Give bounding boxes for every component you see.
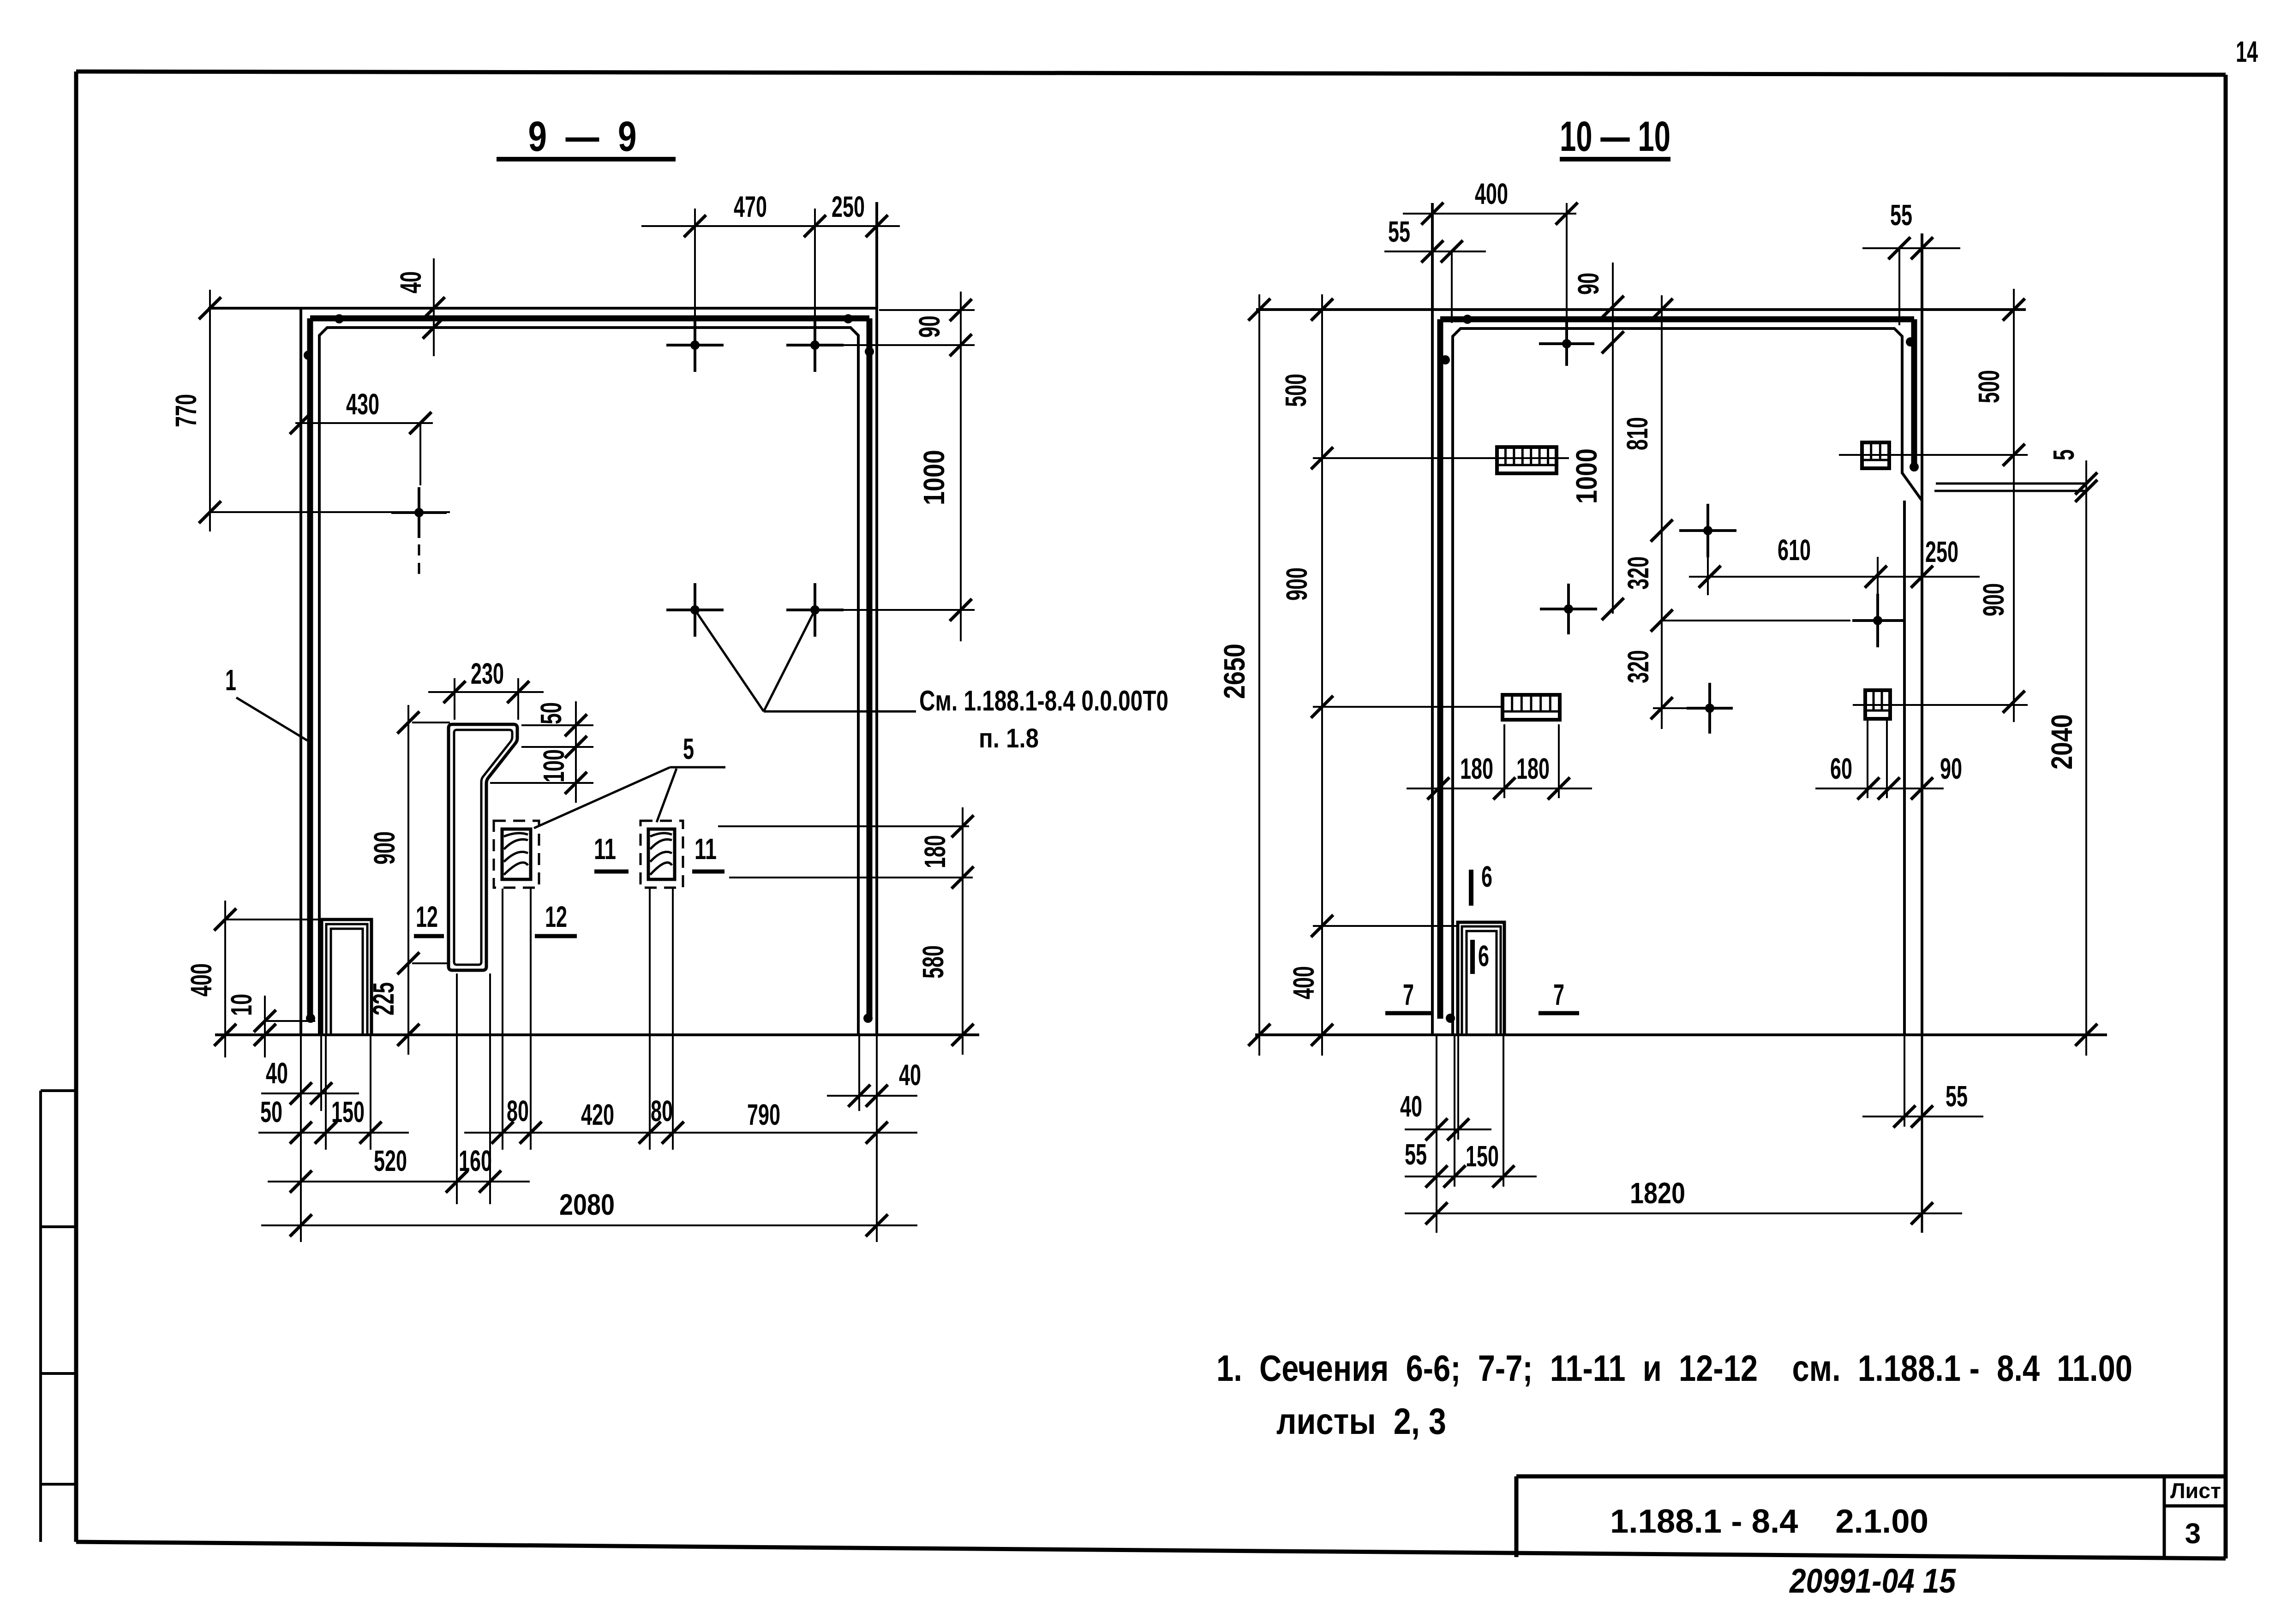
section title 9-9 xyxy=(497,113,676,160)
svg-text:2080: 2080 xyxy=(559,1188,615,1221)
dim 55 top-left 10-10 xyxy=(1384,215,1486,323)
dim 770 left 9-9 xyxy=(169,290,450,531)
dim 90 / 1000 centre 10-10 xyxy=(1570,263,1624,620)
svg-text:См. 1.188.1-8.4 0.0.00Т0: См. 1.188.1-8.4 0.0.00Т0 xyxy=(919,685,1168,717)
label 1 with leader xyxy=(225,663,307,740)
section title 10-10 xyxy=(1560,113,1670,160)
section marks 7-7 10-10 xyxy=(1385,978,1579,1013)
svg-text:5: 5 xyxy=(683,732,694,765)
panel 10-10 inner contour with notch xyxy=(1453,328,1922,1035)
dim 40 bottom 10-10 xyxy=(1400,1090,1491,1140)
dim 400 top 10-10 xyxy=(1403,177,1578,225)
title block sheet label xyxy=(2170,1479,2221,1550)
svg-text:520: 520 xyxy=(374,1144,407,1177)
dim 55 bottom-right 10-10 xyxy=(1862,1080,1983,1128)
left binding marks xyxy=(41,1091,76,1542)
svg-text:150: 150 xyxy=(1466,1140,1499,1173)
svg-text:12: 12 xyxy=(416,900,438,933)
svg-text:2650: 2650 xyxy=(1218,644,1251,699)
dim 610 / 250 10-10 xyxy=(1689,533,1980,588)
centerline crosses top row 9-9 xyxy=(666,209,975,372)
dim row 50 150 80 420 80 790 bottom 9-9 xyxy=(258,1094,917,1144)
svg-text:80: 80 xyxy=(651,1094,673,1128)
svg-text:150: 150 xyxy=(331,1095,365,1128)
svg-text:1: 1 xyxy=(225,663,236,697)
panel 9-9 inner contour xyxy=(319,328,858,1033)
ground line 9-9 xyxy=(215,1033,979,1036)
extension lines below 9-9 xyxy=(301,889,877,1242)
svg-text:40: 40 xyxy=(899,1058,921,1092)
label 5 with leaders to inserts xyxy=(534,732,725,828)
svg-text:55: 55 xyxy=(1946,1080,1968,1113)
dim 230 above channel 9-9 xyxy=(428,657,544,720)
svg-text:1.188.1 - 8.4 2.1.00: 1.188.1 - 8.4 2.1.00 xyxy=(1610,1503,1928,1540)
svg-text:80: 80 xyxy=(507,1094,529,1128)
svg-text:320: 320 xyxy=(1622,556,1655,590)
svg-text:180: 180 xyxy=(918,835,952,868)
svg-text:230: 230 xyxy=(471,657,504,690)
centerline crosses 10-10 xyxy=(1539,203,1903,734)
svg-text:400: 400 xyxy=(185,963,218,997)
anchor plate right row1 10-10 xyxy=(1862,442,1889,468)
svg-text:40: 40 xyxy=(394,271,427,293)
page number 14 xyxy=(2236,35,2258,68)
channel profile element 9-9 xyxy=(449,724,517,970)
svg-text:40: 40 xyxy=(1400,1090,1422,1123)
dim 90 / 1000 right 9-9 xyxy=(879,292,975,641)
dim 180 / 580 right 9-9 xyxy=(718,807,974,1055)
svg-text:6: 6 xyxy=(1478,939,1489,973)
svg-text:3: 3 xyxy=(2185,1518,2201,1550)
svg-text:1820: 1820 xyxy=(1630,1176,1685,1210)
svg-text:225: 225 xyxy=(367,982,400,1015)
dim 60 90 right 10-10 xyxy=(1815,721,1962,800)
svg-text:20991-04 15: 20991-04 15 xyxy=(1789,1562,1956,1600)
svg-text:900: 900 xyxy=(1280,567,1313,601)
svg-text:400: 400 xyxy=(1475,177,1508,210)
dim row 2080 bottom 9-9 xyxy=(261,1188,917,1236)
svg-text:55: 55 xyxy=(1405,1138,1427,1171)
svg-text:50: 50 xyxy=(260,1095,282,1128)
dim 180 180 left 10-10 xyxy=(1407,724,1592,800)
door frame element 10-10 xyxy=(1458,922,1504,1035)
dim 55 top-right 10-10 xyxy=(1862,198,1960,325)
svg-text:1000: 1000 xyxy=(917,450,951,505)
dim 1820 bottom 10-10 xyxy=(1405,1176,1962,1224)
section marks 11-11 xyxy=(594,832,724,872)
section marks 6 10-10 xyxy=(1471,860,1492,974)
dim 55 150 bottom 10-10 xyxy=(1405,1138,1537,1188)
svg-text:610: 610 xyxy=(1778,533,1811,567)
svg-text:900: 900 xyxy=(1977,583,2010,616)
dim 40 top slab 9-9 xyxy=(394,258,445,356)
svg-text:320: 320 xyxy=(1622,650,1655,683)
extension lines below 10-10 xyxy=(1437,1035,1922,1233)
svg-text:11: 11 xyxy=(694,832,717,866)
centerline crosses mid row 9-9 with leaders xyxy=(666,583,975,711)
svg-text:2040: 2040 xyxy=(2045,714,2078,770)
note text line 2 xyxy=(1276,1401,1446,1442)
centerline cross top-left 9-9 xyxy=(391,487,447,577)
panel 10-10 outer contour xyxy=(1256,203,2026,1035)
svg-text:90: 90 xyxy=(913,316,946,338)
svg-text:60: 60 xyxy=(1830,752,1852,785)
svg-text:10 — 10: 10 — 10 xyxy=(1560,113,1670,160)
dim 900 / 225 channel 9-9 xyxy=(367,705,450,1055)
title block frame xyxy=(1516,1476,2226,1558)
dim row 40 bottom 9-9 xyxy=(261,1057,921,1107)
svg-text:770: 770 xyxy=(169,394,203,427)
wood insert 11 left (hatched, dashed outline) xyxy=(494,821,539,888)
panel 9-9 outer contour xyxy=(208,202,877,1033)
svg-text:7: 7 xyxy=(1403,978,1414,1011)
svg-text:900: 900 xyxy=(368,831,401,865)
title block document number xyxy=(1610,1503,1928,1540)
svg-text:7: 7 xyxy=(1553,978,1564,1011)
svg-text:100: 100 xyxy=(537,749,570,782)
panel 9-9 reinforcement thick lines xyxy=(310,318,869,1019)
svg-text:5: 5 xyxy=(2047,449,2080,460)
svg-text:250: 250 xyxy=(1925,535,1958,568)
dim 400 / 10 bottom-left 9-9 xyxy=(185,901,323,1057)
svg-text:55: 55 xyxy=(1388,215,1410,248)
dim 430 9-9 xyxy=(290,388,433,485)
anchor plate left row1 10-10 xyxy=(1497,447,1557,473)
svg-text:790: 790 xyxy=(747,1098,780,1131)
dim 50 / 100 channel jog 9-9 xyxy=(490,701,593,803)
dim 470 / 250 top 9-9 xyxy=(641,190,900,237)
anchor plate left row2 10-10 xyxy=(1503,695,1560,720)
notch detail 5 lines 10-10 xyxy=(1934,449,2097,513)
svg-text:500: 500 xyxy=(1279,374,1312,407)
svg-text:6: 6 xyxy=(1481,860,1492,893)
section marks 12-12 xyxy=(414,900,577,936)
rebar section dots 9-9 xyxy=(304,314,874,1023)
svg-text:430: 430 xyxy=(346,388,379,421)
svg-text:180: 180 xyxy=(1516,752,1550,785)
panel 10-10 reinforcement thick lines xyxy=(1440,319,1914,1019)
wood insert 11 right (hatched, dashed outline) xyxy=(641,821,683,888)
reference text see 1.188.1-8.4 xyxy=(919,685,1168,753)
svg-text:55: 55 xyxy=(1890,198,1912,232)
svg-text:400: 400 xyxy=(1287,966,1320,999)
svg-text:470: 470 xyxy=(734,190,767,223)
svg-text:1000: 1000 xyxy=(1570,448,1603,504)
svg-text:листы 2, 3: листы 2, 3 xyxy=(1276,1401,1446,1442)
svg-text:10: 10 xyxy=(225,994,258,1016)
dim row 520 160 bottom 9-9 xyxy=(268,1144,530,1193)
dim 810 / 320 / 320 centre 10-10 xyxy=(1621,295,1673,729)
door frame element 9-9 xyxy=(322,919,371,1033)
svg-text:50: 50 xyxy=(534,702,568,724)
svg-text:9 — 9: 9 — 9 xyxy=(528,113,637,160)
dim 2040 right 10-10 xyxy=(2045,513,2097,1056)
svg-text:Лист: Лист xyxy=(2170,1479,2221,1503)
svg-text:14: 14 xyxy=(2236,35,2258,68)
svg-text:90: 90 xyxy=(1940,752,1962,785)
svg-text:90: 90 xyxy=(1572,273,1605,295)
svg-text:1. Сечения 6-6; 7-7; 11-11: 1. Сечения 6-6; 7-7; 11-11 и 12-12 см. 1… xyxy=(1216,1348,2132,1389)
svg-text:40: 40 xyxy=(266,1057,288,1090)
svg-text:180: 180 xyxy=(1460,752,1493,785)
svg-text:580: 580 xyxy=(916,945,950,979)
svg-text:п. 1.8: п. 1.8 xyxy=(979,723,1039,753)
dim 500 / 900 right 10-10 xyxy=(1839,289,2028,722)
svg-text:11: 11 xyxy=(594,832,616,866)
rebar section dots 10-10 xyxy=(1441,315,1919,1023)
svg-text:250: 250 xyxy=(832,190,865,223)
anchor plate right row2 10-10 xyxy=(1865,690,1890,719)
svg-text:12: 12 xyxy=(545,900,567,933)
svg-text:160: 160 xyxy=(459,1144,492,1177)
svg-text:810: 810 xyxy=(1621,417,1654,450)
note text line 1 xyxy=(1216,1348,2132,1389)
svg-text:420: 420 xyxy=(581,1098,614,1131)
svg-text:500: 500 xyxy=(1972,370,2006,403)
ground line 10-10 xyxy=(1255,1033,2107,1036)
handwritten inventory number 20991-04 15 xyxy=(1789,1562,1956,1600)
dim 2650 left 10-10 xyxy=(1218,294,1270,1056)
dim 500 / 900 / 400 left 10-10 xyxy=(1279,294,1569,1056)
